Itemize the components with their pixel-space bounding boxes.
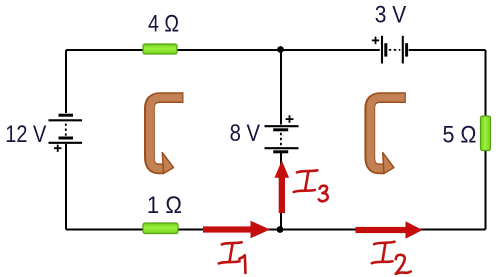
svg-text:8 V: 8 V — [230, 120, 261, 147]
svg-text:12 V: 12 V — [5, 121, 46, 148]
svg-text:5 Ω: 5 Ω — [443, 122, 477, 149]
svg-text:3 V: 3 V — [375, 1, 407, 28]
svg-text:1 Ω: 1 Ω — [147, 192, 182, 219]
svg-text:4 Ω: 4 Ω — [148, 11, 179, 38]
